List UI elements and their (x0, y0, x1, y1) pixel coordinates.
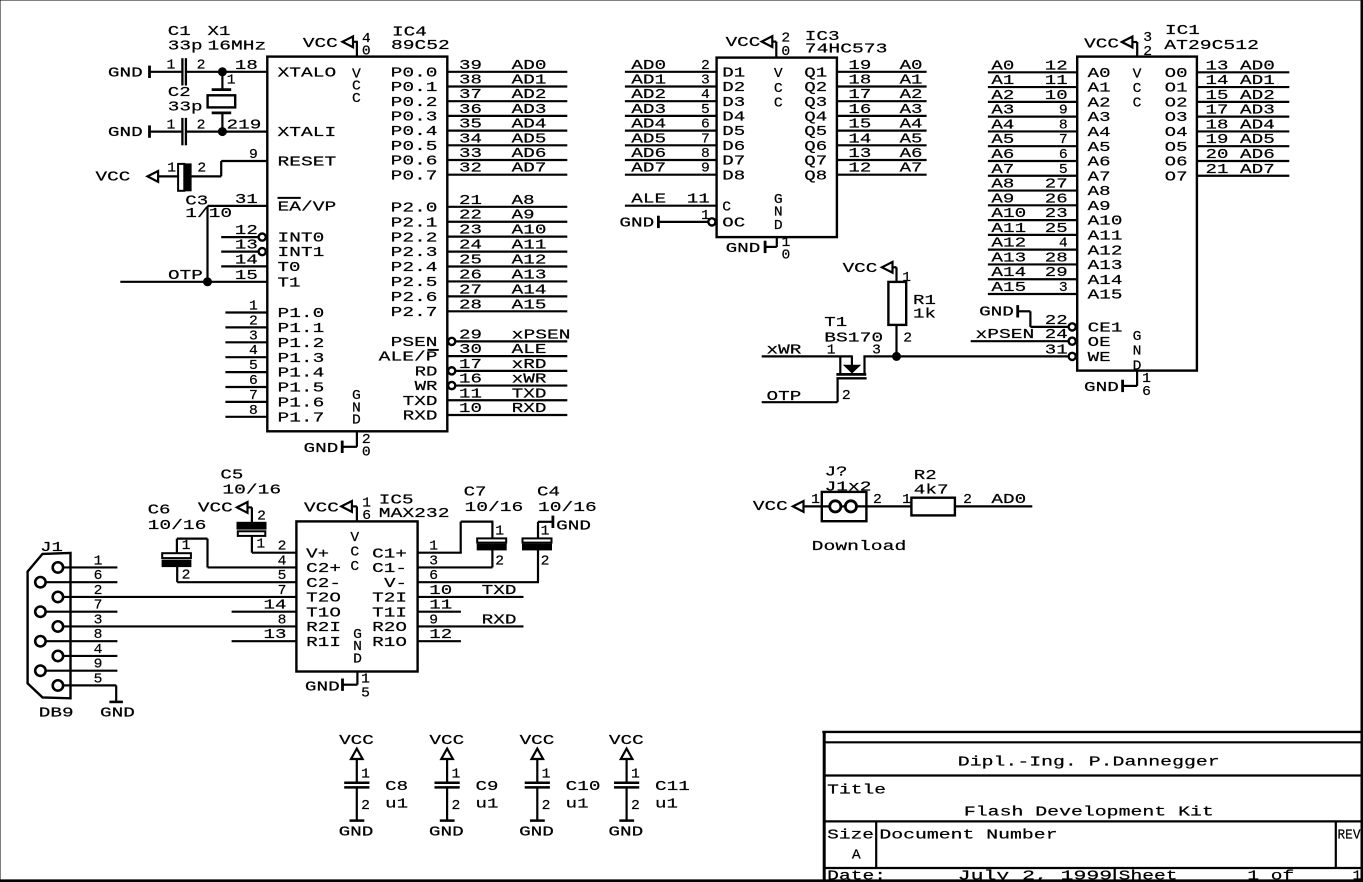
svg-text:1k: 1k (913, 308, 936, 323)
svg-text:V+: V+ (306, 547, 329, 562)
VCC power symbol at C10 (520, 734, 555, 759)
title block Size label (827, 829, 874, 844)
svg-text:A5: A5 (900, 132, 923, 147)
svg-text:34: 34 (459, 132, 482, 147)
svg-text:R1O: R1O (372, 636, 407, 651)
wire VCC to IC3 pin 20 (772, 42, 776, 58)
svg-text:AD1: AD1 (1240, 74, 1275, 89)
IC5 pin 10 wire net TXD (418, 584, 524, 599)
svg-text:19: 19 (1206, 133, 1229, 148)
svg-text:J1x2: J1x2 (825, 480, 872, 495)
svg-text:0: 0 (782, 248, 791, 263)
svg-text:A2: A2 (991, 89, 1014, 104)
svg-text:WE: WE (1088, 351, 1111, 366)
svg-text:A9: A9 (1088, 200, 1111, 215)
capacitor C4 labels (537, 486, 597, 516)
svg-text:A8: A8 (991, 178, 1014, 193)
svg-text:P0.2: P0.2 (391, 96, 438, 111)
svg-text:22: 22 (459, 209, 482, 224)
wire EA/VP to T1 node (206, 206, 208, 282)
svg-text:19: 19 (848, 59, 871, 74)
svg-text:1: 1 (827, 344, 836, 359)
svg-text:P2.0: P2.0 (391, 201, 438, 216)
svg-text:3: 3 (1059, 281, 1068, 296)
svg-text:8: 8 (278, 613, 287, 628)
svg-text:A15: A15 (1088, 289, 1123, 304)
svg-text:WR: WR (415, 380, 438, 395)
svg-text:VCC: VCC (339, 734, 374, 749)
IC5 pin T2O (7) wire (64, 584, 341, 607)
svg-text:OE: OE (1088, 336, 1111, 351)
wire C6 pin1 to C2+ (177, 539, 208, 568)
svg-text:D: D (352, 414, 361, 429)
IC5 pin name R1O (372, 636, 407, 651)
jumper J? J1x2 (822, 466, 872, 522)
svg-text:A8: A8 (512, 194, 535, 209)
svg-text:1: 1 (902, 271, 911, 286)
svg-text:27: 27 (1045, 178, 1068, 193)
svg-text:R2: R2 (914, 469, 937, 484)
svg-text:11: 11 (429, 599, 452, 614)
IC4 GND pin name (352, 389, 361, 429)
IC5 pin name C1+ (372, 547, 407, 562)
svg-text:GND: GND (556, 520, 591, 535)
svg-text:3: 3 (1143, 31, 1152, 46)
svg-text:1: 1 (701, 209, 710, 224)
svg-text:INT0: INT0 (278, 232, 325, 247)
IC1 pin A7 wire (988, 163, 1111, 186)
svg-text:C10: C10 (566, 780, 601, 795)
svg-text:36: 36 (459, 103, 482, 118)
svg-text:P0.0: P0.0 (391, 66, 438, 81)
IC3 pin Q1 wire A0 (804, 59, 926, 82)
svg-text:July 2, 1999: July 2, 1999 (958, 870, 1112, 882)
title block Title label (827, 783, 886, 798)
svg-text:VCC: VCC (520, 734, 555, 749)
title block Document Number label (879, 829, 1057, 844)
IC4 pin RESET wire/number/name (221, 148, 336, 171)
svg-text:VCC: VCC (1084, 37, 1119, 52)
svg-text:O6: O6 (1165, 156, 1188, 171)
svg-text:R1I: R1I (306, 636, 341, 651)
svg-text:3: 3 (872, 344, 881, 359)
capacitor C4 10/16 polarized (523, 525, 552, 570)
capacitor C6 labels (148, 503, 207, 534)
svg-text:A2: A2 (900, 88, 923, 103)
svg-text:A8: A8 (1088, 185, 1111, 200)
svg-text:12: 12 (235, 224, 258, 239)
IC1 pin A15 wire (988, 281, 1123, 304)
IC1 pin OE (24) bubble/number/name (1045, 328, 1111, 351)
wire R1 to xWR net (895, 325, 897, 357)
svg-text:11: 11 (459, 387, 482, 402)
IC5 pin 11 wire (418, 599, 461, 614)
svg-text:31: 31 (235, 193, 258, 208)
svg-text:RD: RD (415, 365, 438, 380)
svg-text:6: 6 (701, 118, 710, 133)
svg-text:Q3: Q3 (804, 96, 827, 111)
capacitor C5 10/16 polarized (237, 510, 266, 553)
svg-text:ALE/P: ALE/P (379, 351, 438, 366)
svg-text:D: D (774, 219, 783, 234)
IC1 reference label (1164, 24, 1259, 54)
svg-text:3: 3 (94, 613, 103, 628)
svg-text:13: 13 (848, 147, 871, 162)
svg-text:18: 18 (235, 59, 258, 74)
IC1 pin A12 wire (988, 237, 1123, 260)
IC4 pin PSEN wire net xPSEN (391, 328, 571, 351)
svg-text:V: V (350, 531, 360, 546)
IC1 pin 32 number (1143, 31, 1152, 60)
VCC power symbol at C11 (609, 734, 644, 759)
IC3 pin D1 wire AD0 (625, 59, 745, 82)
VCC power symbol at IC3 pin 20 (726, 36, 773, 51)
wire VCC to R1 (893, 267, 897, 282)
svg-text:2: 2 (257, 510, 266, 525)
net label OTP at T1 gate (767, 390, 802, 405)
IC1 pin O3 wire AD3 (1165, 104, 1290, 127)
svg-text:AD4: AD4 (512, 118, 547, 133)
IC5 pin R1I (13) wire (232, 628, 341, 651)
IC1 pin O6 wire AD6 (1165, 148, 1290, 171)
svg-text:24: 24 (459, 239, 482, 254)
IC5 pin 6 wire to C4 (418, 569, 539, 584)
capacitor C7 labels (464, 486, 524, 516)
svg-text:xWR: xWR (512, 373, 547, 388)
VCC power symbol at C9 (429, 734, 464, 759)
IC4 pin P1.3 wire/number/name (225, 344, 324, 367)
wire R2 to AD0 (955, 505, 1032, 507)
J1 pin 9 pad/wire (35, 658, 117, 676)
svg-text:20: 20 (1206, 148, 1229, 163)
IC5 pin 9 wire net RXD (418, 613, 524, 628)
svg-text:A4: A4 (991, 118, 1014, 133)
IC5 reference label (379, 494, 450, 523)
svg-text:2: 2 (701, 59, 710, 74)
capacitor C9 u1 (435, 768, 499, 814)
svg-text:T1I: T1I (372, 606, 407, 621)
svg-text:V: V (1133, 67, 1143, 82)
capacitor C3 1/10 polarized (167, 162, 232, 223)
svg-text:1: 1 (902, 493, 911, 508)
svg-text:C: C (350, 560, 359, 575)
J1 pin 3 pad/wire (53, 613, 103, 631)
svg-text:IC1: IC1 (1165, 24, 1200, 39)
ground symbol at C1 (108, 66, 150, 82)
svg-text:D6: D6 (722, 140, 745, 155)
IC4 pin P1.5 wire/number/name (225, 374, 324, 397)
svg-text:C: C (722, 200, 731, 215)
J1 pin 5 pad/wire (53, 672, 116, 690)
svg-text:5: 5 (278, 569, 287, 584)
svg-text:3: 3 (429, 554, 438, 569)
svg-text:A4: A4 (1088, 126, 1111, 141)
IC1 pin A1 wire (988, 74, 1111, 97)
wire GND to C2 (151, 131, 182, 133)
IC1 VCC pin name (1133, 67, 1143, 111)
svg-text:2: 2 (249, 314, 258, 329)
IC5 pin 1 wire to C7 (418, 522, 494, 555)
ground symbol at IC5 pin 15 (305, 679, 343, 696)
svg-text:14: 14 (235, 253, 258, 268)
svg-text:28: 28 (1045, 251, 1068, 266)
IC1 pin A13 wire (988, 251, 1123, 274)
svg-text:1: 1 (167, 162, 176, 177)
svg-text:T2I: T2I (372, 592, 407, 607)
wire GND to IC1 CE1 pin 22 (1019, 311, 1068, 327)
IC3 reference label (805, 30, 888, 57)
svg-text:10: 10 (459, 402, 482, 417)
svg-text:1: 1 (167, 58, 176, 73)
IC4 pin P2.1 wire A9 (391, 209, 568, 232)
wire GND to C1 (151, 71, 182, 73)
ground symbol at IC1 pin 16 (1084, 380, 1123, 396)
svg-text:C5: C5 (220, 469, 243, 484)
wire C6 pin2 to C2- (176, 567, 178, 583)
IC3 pin Q5 wire A4 (804, 118, 926, 141)
svg-text:VCC: VCC (726, 36, 761, 51)
VCC power symbol at IC5 pin 16 (304, 501, 352, 516)
wire C2 to XTALI node (187, 131, 222, 133)
svg-text:37: 37 (459, 88, 482, 103)
svg-text:A6: A6 (1088, 156, 1111, 171)
svg-text:P1.0: P1.0 (278, 307, 325, 322)
VCC power symbol at R1 (843, 262, 893, 277)
svg-text:GND: GND (304, 442, 339, 457)
svg-text:10/16: 10/16 (465, 501, 524, 516)
svg-text:C6: C6 (148, 503, 171, 518)
svg-text:INT1: INT1 (278, 246, 325, 261)
svg-text:4: 4 (1059, 237, 1068, 252)
svg-text:9: 9 (701, 162, 710, 177)
IC4 VCC pin name (352, 67, 362, 107)
svg-text:J1: J1 (40, 541, 63, 556)
svg-text:13: 13 (235, 239, 258, 254)
junction XTALO node (218, 68, 226, 76)
IC1 pin A0 wire (988, 59, 1111, 82)
svg-text:1: 1 (429, 540, 438, 555)
net label xPSEN at IC1 (976, 328, 1035, 343)
svg-text:RXD: RXD (403, 410, 438, 425)
svg-text:D1: D1 (722, 66, 745, 81)
title block REV label (1338, 829, 1362, 844)
svg-text:32: 32 (459, 162, 482, 177)
IC3 pin 20 number (781, 32, 790, 60)
IC4 pin T1 wire/number/name (120, 269, 300, 292)
svg-text:25: 25 (459, 254, 482, 269)
svg-text:G: G (1133, 330, 1142, 345)
svg-text:Q7: Q7 (804, 155, 827, 170)
IC4 pin XTALO wire/number/name (222, 59, 336, 82)
svg-text:31: 31 (1045, 343, 1068, 358)
IC3 pin D8 wire AD7 (625, 162, 745, 185)
capacitor C10 u1 (525, 768, 601, 814)
IC5 pin R2I (8) wire (64, 613, 341, 636)
svg-text:xRD: xRD (512, 358, 547, 373)
svg-text:9: 9 (429, 613, 438, 628)
svg-text:38: 38 (459, 74, 482, 89)
svg-text:10/16: 10/16 (222, 484, 281, 499)
svg-text:D2: D2 (722, 81, 745, 96)
wire T1 drain to IC1 WE pin 31 (863, 355, 1067, 357)
IC1 pin A2 wire (988, 89, 1111, 112)
svg-text:C2-: C2- (306, 577, 341, 592)
J1 pin 8 pad/wire (35, 628, 117, 646)
capacitor C5 labels (220, 469, 281, 499)
svg-text:23: 23 (459, 224, 482, 239)
svg-text:EA/VP: EA/VP (278, 201, 337, 216)
svg-text:7: 7 (249, 389, 258, 404)
svg-text:VCC: VCC (304, 501, 339, 516)
svg-text:2: 2 (842, 389, 851, 404)
svg-text:Q6: Q6 (804, 140, 827, 155)
svg-text:A5: A5 (1088, 141, 1111, 156)
svg-text:P0.3: P0.3 (391, 111, 438, 126)
svg-text:2: 2 (94, 584, 103, 599)
IC4 pin P0.3 wire AD3 (391, 103, 568, 126)
wire IC4 pin 20 to ground (343, 431, 357, 447)
svg-text:X1: X1 (208, 25, 231, 40)
svg-text:1: 1 (361, 672, 370, 687)
ground symbol at C10 (519, 821, 554, 841)
svg-text:A10: A10 (991, 207, 1026, 222)
svg-text:14: 14 (1206, 74, 1229, 89)
svg-text:Q5: Q5 (804, 125, 827, 140)
IC3 pin D6 wire AD5 (625, 132, 745, 155)
svg-text:AD3: AD3 (512, 103, 547, 118)
svg-text:6: 6 (94, 569, 103, 584)
svg-text:A15: A15 (512, 298, 547, 313)
label DB9 (39, 707, 74, 722)
wire VCC to C5 (248, 507, 252, 522)
svg-text:18: 18 (1206, 118, 1229, 133)
IC3 pin Q3 wire A2 (804, 88, 926, 111)
junction XTALI node (218, 128, 226, 136)
svg-text:A7: A7 (1088, 170, 1111, 185)
svg-text:2: 2 (542, 799, 551, 814)
svg-text:8: 8 (249, 404, 258, 419)
svg-text:6: 6 (1059, 148, 1068, 163)
svg-text:AD1: AD1 (631, 74, 666, 89)
wire IC5 pin 15 to ground (344, 672, 358, 685)
label Download (812, 540, 907, 555)
svg-text:D8: D8 (722, 169, 745, 184)
J? pin 1 number (811, 493, 820, 508)
svg-text:A1: A1 (900, 74, 923, 89)
svg-text:14: 14 (848, 132, 871, 147)
svg-text:P2.1: P2.1 (391, 216, 438, 231)
svg-text:MAX232: MAX232 (379, 507, 450, 522)
svg-text:REV: REV (1338, 829, 1362, 844)
svg-text:17: 17 (459, 358, 482, 373)
svg-text:17: 17 (848, 88, 871, 103)
svg-text:6: 6 (249, 374, 258, 389)
svg-text:D: D (353, 652, 362, 667)
IC4 pin P2.3 wire A11 (391, 239, 568, 262)
IC1 pin O1 wire AD1 (1165, 74, 1290, 97)
svg-text:A1: A1 (991, 74, 1014, 89)
capacitor C11 u1 (614, 768, 690, 814)
svg-text:C: C (774, 97, 783, 112)
svg-text:GND: GND (1084, 381, 1119, 396)
svg-text:C7: C7 (464, 486, 487, 501)
IC4 pin P1.0 wire/number/name (225, 300, 324, 323)
IC4 89C52 body (267, 57, 447, 432)
svg-text:A13: A13 (512, 268, 547, 283)
svg-text:T1: T1 (824, 316, 847, 331)
IC1 pin O7 wire AD7 (1165, 163, 1290, 186)
svg-text:26: 26 (459, 268, 482, 283)
IC1 pin A11 wire (988, 222, 1123, 245)
svg-text:3: 3 (701, 74, 710, 89)
svg-text:15: 15 (848, 118, 871, 133)
IC5 pin C2+ (4) wire (208, 554, 342, 577)
IC5 pin C2- (5) wire (177, 569, 341, 592)
J? pin 2 number (873, 493, 882, 508)
svg-text:7: 7 (1059, 133, 1068, 148)
svg-text:ALE: ALE (512, 343, 547, 358)
svg-text:8: 8 (701, 147, 710, 162)
IC4 pin ALE/P wire net ALE (379, 343, 568, 366)
svg-text:P1.6: P1.6 (278, 397, 325, 412)
IC4 pin P0.5 wire AD5 (391, 132, 568, 155)
svg-text:P1.4: P1.4 (278, 367, 325, 382)
IC5 VCC pin name (350, 531, 360, 575)
svg-text:P2.3: P2.3 (391, 246, 438, 261)
svg-text:GND: GND (726, 242, 761, 257)
wire C3 to RESET (191, 161, 221, 176)
svg-text:A14: A14 (991, 266, 1026, 281)
svg-text:PSEN: PSEN (391, 336, 438, 351)
svg-text:TXD: TXD (482, 584, 517, 599)
IC5 pin T1O (14) wire (232, 599, 341, 622)
svg-text:O2: O2 (1165, 96, 1188, 111)
wire IC3 pin 10 to ground (766, 237, 777, 247)
IC4 pin INT1 wire/number/name (221, 239, 324, 262)
svg-text:P1.1: P1.1 (278, 322, 325, 337)
svg-text:23: 23 (1045, 207, 1068, 222)
wire VCC to C11 (625, 759, 627, 782)
svg-text:A7: A7 (991, 163, 1014, 178)
IC5 pin name T2I (372, 592, 407, 607)
net label OTP (168, 269, 203, 284)
IC3 pin D5 wire AD4 (625, 118, 745, 141)
ground symbol at C4 (553, 516, 591, 535)
svg-text:A13: A13 (991, 251, 1026, 266)
ground symbol at C9 (429, 821, 464, 841)
svg-text:4k7: 4k7 (914, 484, 949, 499)
resistor R1 1k (888, 271, 936, 347)
svg-text:O4: O4 (1165, 126, 1188, 141)
svg-text:AD7: AD7 (631, 162, 666, 177)
svg-text:Q1: Q1 (804, 66, 827, 81)
IC3 pin D2 wire AD1 (625, 74, 745, 97)
wire C5 to IC5 V+ (251, 536, 253, 553)
svg-text:C: C (774, 82, 783, 97)
svg-text:D3: D3 (722, 96, 745, 111)
svg-text:V: V (774, 67, 784, 82)
svg-text:6: 6 (429, 569, 438, 584)
IC4 pin P0.7 wire AD7 (391, 162, 568, 185)
svg-text:7: 7 (701, 132, 710, 147)
R2 pin 2 number (963, 493, 972, 508)
IC5 pin name R2O (372, 621, 407, 636)
svg-text:AD0: AD0 (631, 59, 666, 74)
svg-text:C1: C1 (168, 25, 191, 40)
svg-text:ALE: ALE (631, 193, 666, 208)
svg-text:Sheet: Sheet (1119, 870, 1178, 882)
IC4 pin T0 wire/number/name (221, 253, 300, 276)
